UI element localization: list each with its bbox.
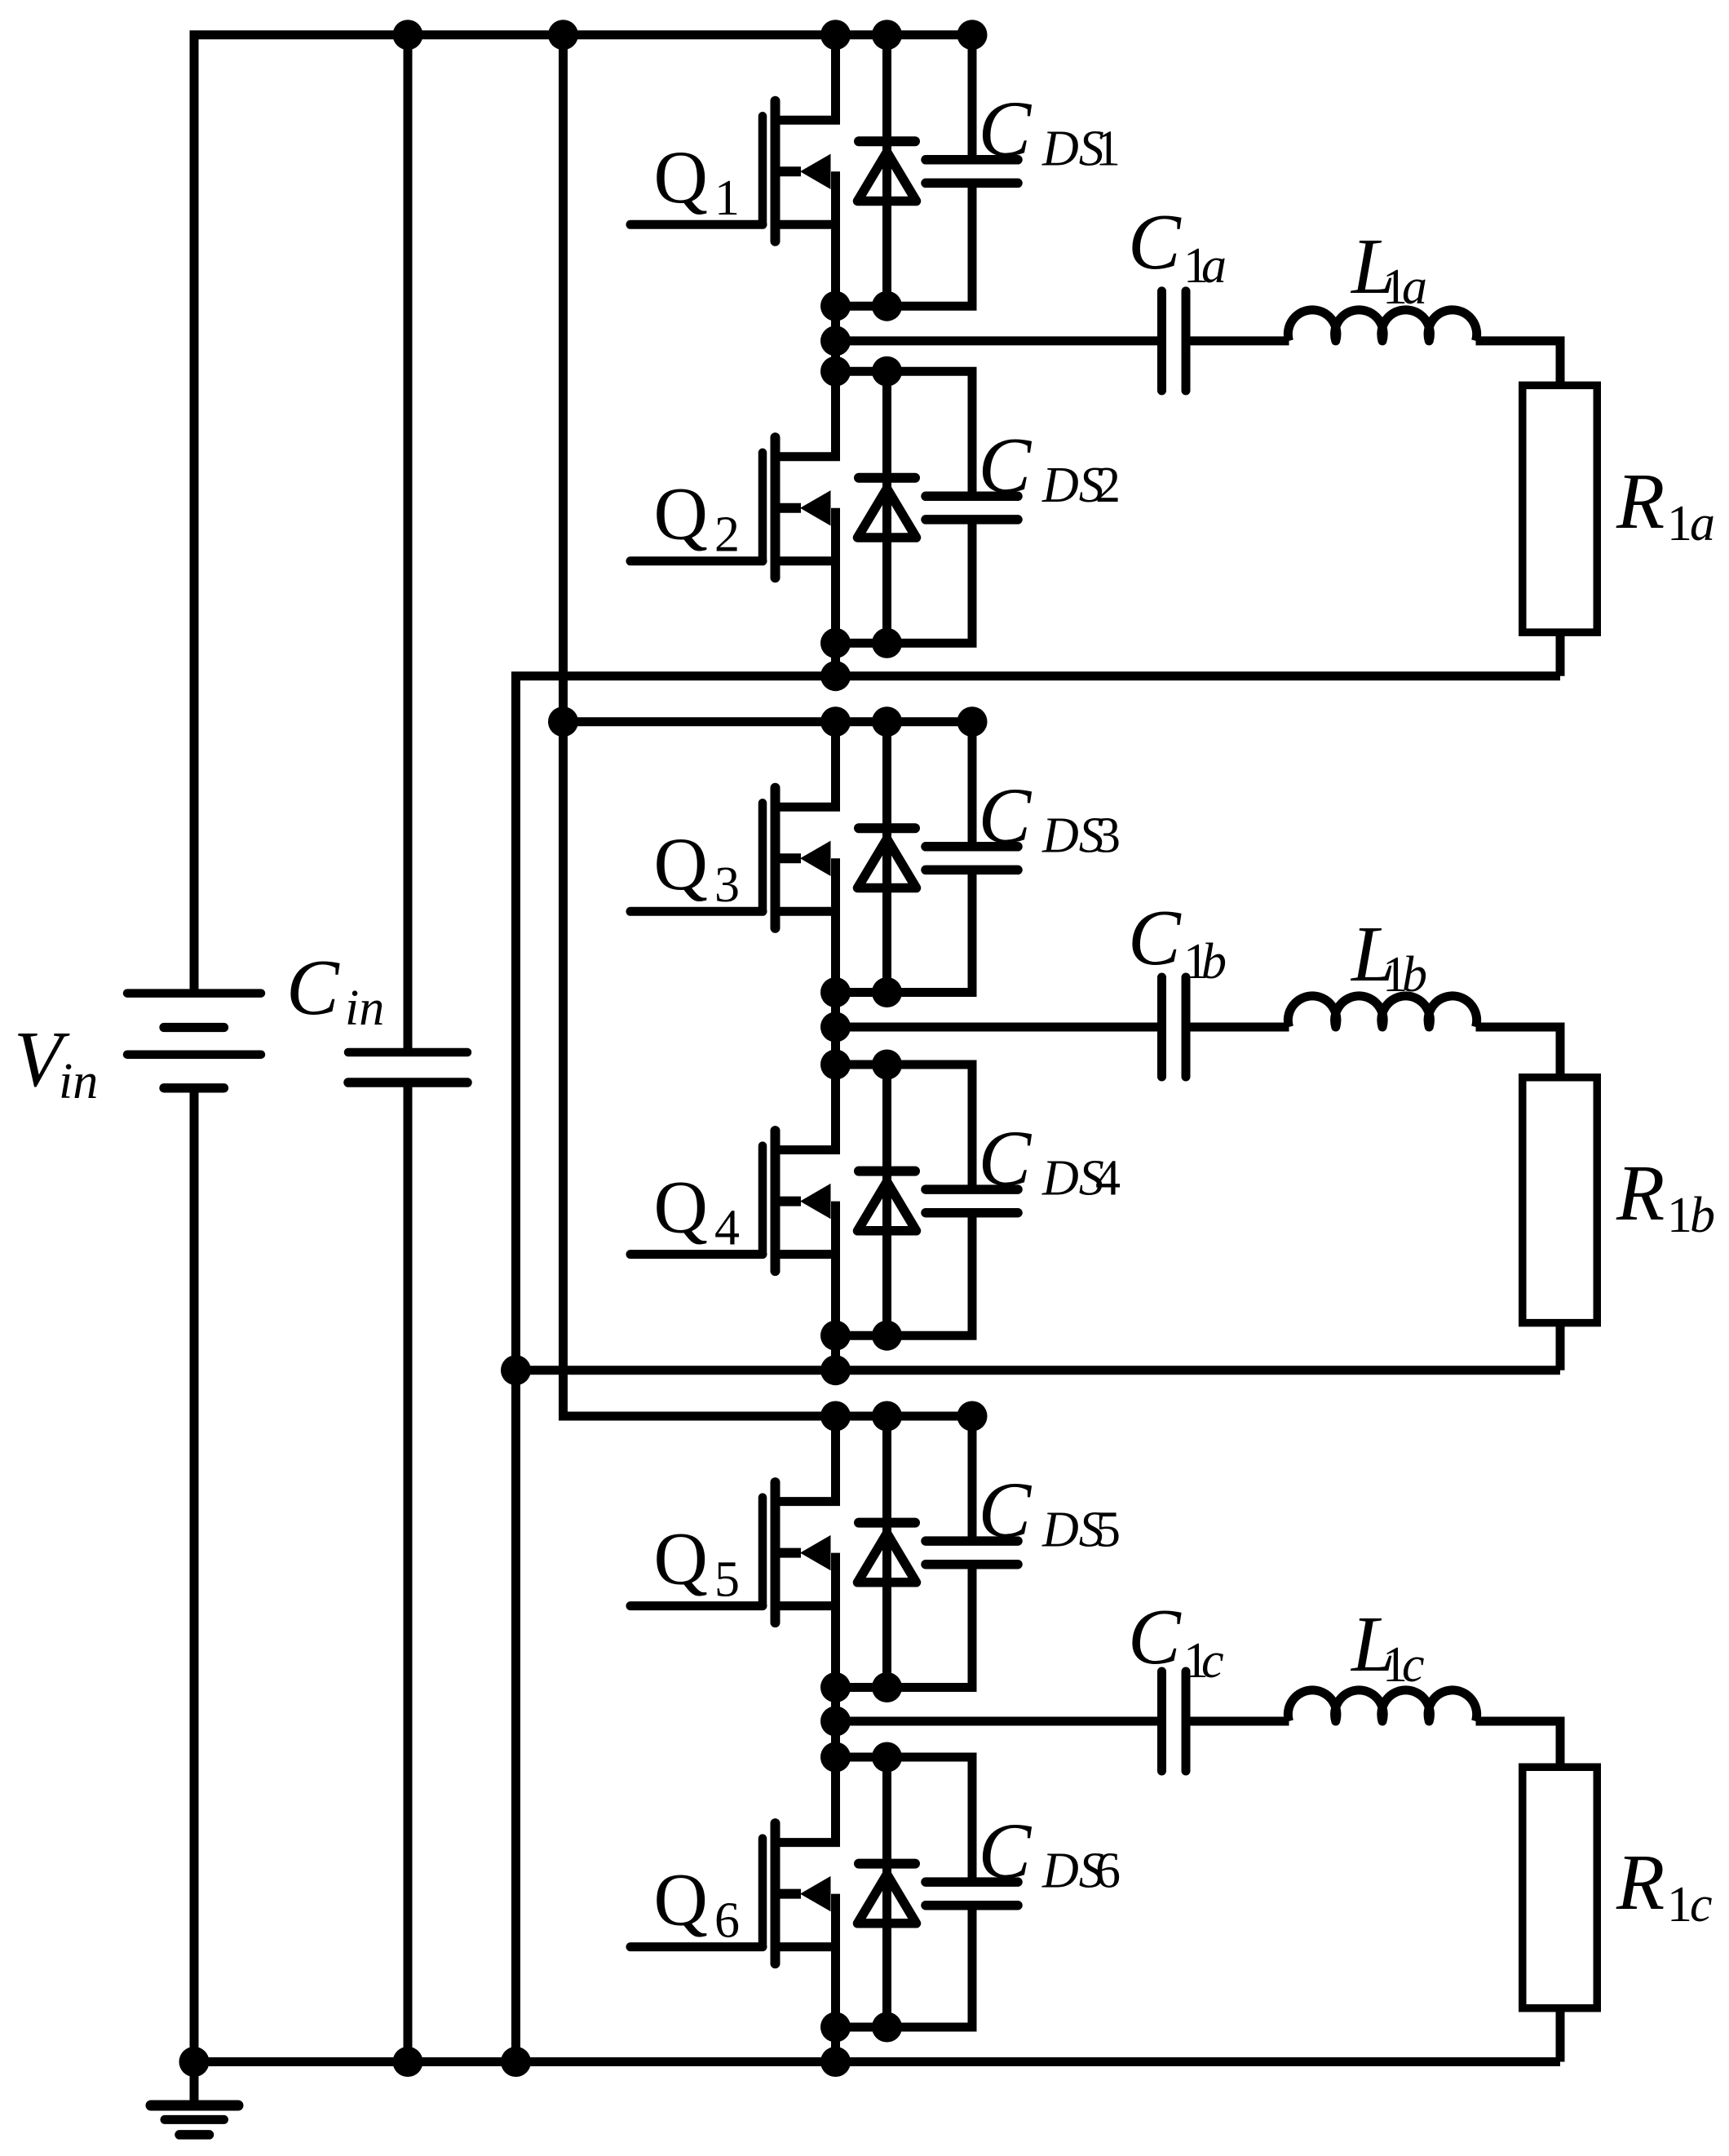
- wire: Q3 source vertical: [831, 858, 840, 1149]
- junction: diode D2 cathode at top connect: [872, 356, 902, 387]
- transistor Q5 body stub: [776, 1548, 802, 1558]
- capacitor C_1c right plate: [1182, 1671, 1191, 1771]
- wire: C_DS5 top lead: [968, 1416, 977, 1541]
- capacitor Cin top plate: [348, 1048, 467, 1057]
- transistor Q3 source lead: [776, 907, 836, 916]
- junction: D1 cathode on top rail: [872, 20, 902, 50]
- capacitor C_1a left plate: [1157, 291, 1166, 391]
- transistor Q4 source lead: [776, 1250, 836, 1259]
- junction: phase b return on collector rail: [501, 1355, 531, 1385]
- transistor Q3 drain lead: [776, 722, 836, 808]
- battery Vin short plate 1: [164, 1023, 224, 1032]
- capacitor C_DS2 top plate: [926, 492, 1018, 502]
- wire: phase a output to C_1a: [836, 336, 1159, 345]
- wire: top positive rail (Vin+ bus) and Vin rail upper segment: [194, 35, 972, 989]
- transistor Q1 gate bar: [758, 116, 767, 224]
- junction: Q6 source on bottom rail: [820, 2047, 851, 2077]
- junction: C_DS5 on bridge C rail: [957, 1401, 988, 1432]
- node: phase b output junction: [820, 1012, 851, 1043]
- diode D5 triangle: [858, 1534, 917, 1583]
- transistor Q4 drain lead: [776, 1065, 836, 1150]
- transistor Q6 drain lead: [776, 1757, 836, 1843]
- transistor Q2 drain lead: [776, 371, 836, 457]
- junction: diode D4 anode at bottom connect: [872, 1321, 902, 1351]
- wire: bottom connect line of Q3 (source/diode/C_DS3 bottom): [836, 870, 973, 992]
- capacitor C_1b right plate: [1182, 977, 1191, 1077]
- wire: Vin+ distribution rail feeding bridge C top: [564, 35, 973, 1416]
- diode D3 cathode bar: [859, 823, 915, 833]
- diode D5 (body diode of Q5) lead: [882, 1416, 891, 1688]
- transistor Q4 body stub: [776, 1197, 802, 1206]
- resistor R_1c body: [1523, 1767, 1598, 2008]
- junction: Q4 source on phase b return: [820, 1355, 851, 1385]
- wire: phase c output to C_1c: [836, 1717, 1159, 1726]
- battery Vin positive long plate: [127, 989, 261, 998]
- transistor Q5 body arrow: [800, 1535, 831, 1570]
- capacitor C_1a right plate: [1182, 291, 1191, 391]
- junction: Q5 source at bottom connect: [820, 1672, 851, 1702]
- transistor Q1 body stub: [776, 166, 802, 176]
- junction: Q4 drain at top connect: [820, 1050, 851, 1080]
- diode D1 triangle: [858, 152, 917, 201]
- transistor Q1 drain lead: [776, 35, 836, 121]
- junction: diode D1 anode at bottom connect: [872, 291, 902, 321]
- wire: R_1b bottom lead: [1556, 1324, 1565, 1370]
- diode D5 cathode bar: [859, 1518, 915, 1528]
- ground symbol lead: [190, 2062, 199, 2102]
- junction: Q1 source at bottom connect: [820, 291, 851, 321]
- wire: phase b output to C_1b: [836, 1023, 1159, 1032]
- diode D1 (body diode of Q1) lead: [882, 35, 891, 307]
- diode D1 cathode bar: [859, 136, 915, 146]
- junction: Q2 source on phase a return: [820, 661, 851, 691]
- transistor Q1 body arrow: [800, 154, 831, 189]
- capacitor C_DS3 top plate: [926, 842, 1018, 852]
- transistor Q6 gate bar: [758, 1839, 767, 1947]
- junction: C_DS1 on top rail: [957, 20, 988, 50]
- junction: Q6 source at bottom connect: [820, 2012, 851, 2043]
- ground bar 3: [179, 2130, 210, 2140]
- wire: L_1a to R_1a: [1476, 341, 1561, 384]
- transistor Q2 channel bar: [771, 437, 780, 578]
- transistor Q2 gate bar: [758, 453, 767, 561]
- junction: diode D5 anode at bottom connect: [872, 1672, 902, 1702]
- ground bar 1: [151, 2101, 238, 2111]
- transistor Q4 channel bar: [771, 1131, 780, 1271]
- capacitor C_DS4 bottom plate: [926, 1208, 1018, 1218]
- wire: Cin rail lower segment: [404, 1086, 413, 2062]
- diode D4 (body diode of Q4) lead: [882, 1065, 891, 1335]
- transistor Q5 source lead: [776, 1601, 836, 1610]
- wire: C_1b to L_1b: [1189, 1023, 1289, 1032]
- wire: Q2 source vertical: [831, 508, 840, 676]
- wire: C_1c to L_1c: [1189, 1717, 1289, 1726]
- wire: gate lead of Q6: [630, 1942, 763, 1951]
- transistor Q6 body stub: [776, 1889, 802, 1899]
- junction: Q2 drain at top connect: [820, 356, 851, 387]
- wire: phase b return (R_1b bottom to negative collector rail): [516, 1366, 1561, 1375]
- transistor Q3 body stub: [776, 853, 802, 863]
- wire: gate lead of Q5: [630, 1601, 763, 1610]
- junction: Q3 source at bottom connect: [820, 977, 851, 1007]
- transistor Q5 drain lead: [776, 1416, 836, 1502]
- wire: C_DS3 top lead: [968, 722, 977, 847]
- junction: diode D4 cathode at top connect: [872, 1050, 902, 1080]
- node: phase c output junction: [820, 1707, 851, 1737]
- wire: bottom connect line of Q1 (source/diode/C_DS1 bottom): [836, 183, 973, 306]
- wire: gate lead of Q1: [630, 220, 763, 229]
- diode D4 triangle: [858, 1182, 917, 1231]
- junction: Q3 drain on bridge B rail: [820, 706, 851, 737]
- capacitor C_DS1 bottom plate: [926, 179, 1018, 188]
- capacitor C_DS5 bottom plate: [926, 1560, 1018, 1569]
- junction: collector rail on bottom rail: [501, 2047, 531, 2077]
- transistor Q3 channel bar: [771, 788, 780, 928]
- wire: gate lead of Q2: [630, 556, 763, 565]
- junction: Q4 source at bottom connect: [820, 1321, 851, 1351]
- transistor Q2 body stub: [776, 503, 802, 513]
- transistor Q6 channel bar: [771, 1823, 780, 1963]
- transistor Q6 source lead: [776, 1942, 836, 1951]
- diode D6 cathode bar: [859, 1859, 915, 1869]
- junction: D5 cathode on bridge C rail: [872, 1401, 902, 1432]
- transistor Q6 body arrow: [800, 1876, 831, 1911]
- transistor Q4 body arrow: [800, 1184, 831, 1219]
- junction: distribution rail on top rail: [548, 20, 578, 50]
- wire: top connect line of Q4 (node to C_DS4/diode top): [836, 1065, 973, 1189]
- diode D6 (body diode of Q6) lead: [882, 1757, 891, 2027]
- capacitor C_1b left plate: [1157, 977, 1166, 1077]
- diode D2 (body diode of Q2) lead: [882, 371, 891, 643]
- transistor Q4 gate bar: [758, 1146, 767, 1255]
- junction: Cin bottom on bottom rail: [393, 2047, 423, 2077]
- junction: Q5 drain on bridge C rail: [820, 1401, 851, 1432]
- junction: Q1 drain on top rail: [820, 20, 851, 50]
- battery Vin long plate 2: [127, 1050, 261, 1059]
- junction: Q6 drain at top connect: [820, 1742, 851, 1773]
- inductor L_1c: [1288, 1690, 1476, 1721]
- junction: Q2 source at bottom connect: [820, 628, 851, 658]
- wire: Vin rail lower segment: [190, 1092, 199, 2062]
- wire: R_1c bottom lead: [1556, 2010, 1565, 2062]
- capacitor C_DS3 bottom plate: [926, 865, 1018, 875]
- wire: L_1b to R_1b: [1476, 1027, 1561, 1076]
- transistor Q1 channel bar: [771, 101, 780, 241]
- capacitor C_DS6 top plate: [926, 1877, 1018, 1887]
- diode D6 triangle: [858, 1875, 917, 1924]
- capacitor C_DS5 top plate: [926, 1536, 1018, 1546]
- wire: bottom connect line of Q2 (source/diode/C_DS2 bottom): [836, 520, 973, 644]
- capacitor C_DS2 bottom plate: [926, 515, 1018, 525]
- wire: bottom negative rail (ground bus): [194, 2057, 1560, 2066]
- transistor Q3 gate bar: [758, 803, 767, 911]
- diode D2 cathode bar: [859, 473, 915, 483]
- node: phase a output junction: [820, 325, 851, 356]
- junction: D3 cathode on bridge B rail: [872, 706, 902, 737]
- wire: top connect line of Q6 (node to C_DS6/diode top): [836, 1757, 973, 1882]
- junction: C_DS3 on bridge B rail: [957, 706, 988, 737]
- wire: gate lead of Q3: [630, 907, 763, 916]
- diode D3 (body diode of Q3) lead: [882, 722, 891, 993]
- transistor Q5 gate bar: [758, 1498, 767, 1606]
- transistor Q3 body arrow: [800, 841, 831, 876]
- junction: diode D3 anode at bottom connect: [872, 977, 902, 1007]
- resistor R_1b body: [1523, 1078, 1598, 1323]
- junction: diode D6 anode at bottom connect: [872, 2012, 902, 2043]
- battery Vin short plate 2 (negative): [164, 1083, 224, 1092]
- junction: diode D2 anode at bottom connect: [872, 628, 902, 658]
- wire: phase a return (R_1a bottom to negative collector rail): [516, 676, 1561, 2062]
- diode D2 triangle: [858, 489, 917, 538]
- wire: gate lead of Q4: [630, 1250, 763, 1259]
- diode D3 triangle: [858, 839, 917, 888]
- transistor Q1 source lead: [776, 220, 836, 229]
- wire: R_1a bottom lead: [1556, 634, 1565, 676]
- inductor L_1b: [1288, 996, 1476, 1027]
- junction: Cin top on rail: [393, 20, 423, 50]
- wire: Q6 source vertical: [831, 1894, 840, 2062]
- transistor Q2 source lead: [776, 556, 836, 565]
- wire: bottom connect line of Q5 (source/diode/C_DS5 bottom): [836, 1565, 973, 1688]
- capacitor C_1c left plate: [1157, 1671, 1166, 1771]
- wire: C_1a to L_1a: [1189, 336, 1289, 345]
- junction: Vin negative on bottom rail: [179, 2047, 210, 2077]
- inductor L_1a: [1288, 310, 1476, 341]
- wire: Q5 source vertical: [831, 1553, 840, 1843]
- wire: Q1 source vertical: [831, 171, 840, 457]
- ground bar 2: [165, 2115, 224, 2124]
- junction: diode D6 cathode at top connect: [872, 1742, 902, 1773]
- wire: top connect line of Q2 (node to C_DS2/diode top): [836, 371, 973, 496]
- wire: bridge B top rail: [564, 717, 973, 726]
- wire: L_1c to R_1c: [1476, 1721, 1561, 1766]
- junction: distribution rail to bridge B top rail: [548, 706, 578, 737]
- diode D4 cathode bar: [859, 1167, 915, 1176]
- capacitor C_DS1 top plate: [926, 155, 1018, 165]
- capacitor Cin bottom plate: [348, 1078, 467, 1087]
- transistor Q5 channel bar: [771, 1482, 780, 1623]
- wire: C_DS1 top lead: [968, 35, 977, 160]
- wire: Q4 source vertical: [831, 1202, 840, 1370]
- wire: Cin rail upper segment: [404, 35, 413, 1049]
- resistor R_1a body: [1523, 385, 1598, 632]
- wire: bottom connect line of Q6 (source/diode/C_DS6 bottom): [836, 1906, 973, 2027]
- capacitor C_DS4 top plate: [926, 1184, 1018, 1194]
- transistor Q2 body arrow: [800, 490, 831, 525]
- capacitor C_DS6 bottom plate: [926, 1901, 1018, 1910]
- wire: bottom connect line of Q4 (source/diode/C_DS4 bottom): [836, 1213, 973, 1336]
